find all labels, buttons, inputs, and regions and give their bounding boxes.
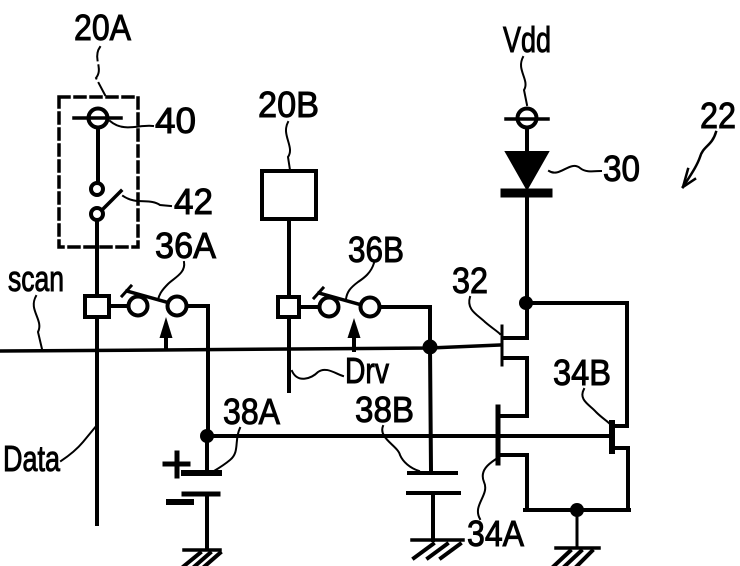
node dot top: [519, 296, 533, 310]
leader 38B: [382, 426, 419, 471]
capacitor 38B top plate: [409, 471, 456, 475]
wire switch 36A to vertical: [187, 306, 208, 436]
leader 30: [549, 166, 601, 173]
scan line: [0, 345, 501, 351]
leader 42: [123, 196, 171, 206]
wire 42 to square 36A: [95, 220, 99, 296]
plus sign: [165, 453, 188, 476]
square 36B: [278, 297, 299, 317]
minus sign: [169, 499, 191, 505]
switch 36B blade: [319, 293, 358, 304]
contact circle lower 42: [91, 208, 103, 220]
diode 30 triangle: [506, 152, 548, 189]
leader Data: [61, 425, 97, 461]
transistor 32 drain lead: [504, 336, 527, 340]
transistor 32 bar: [501, 326, 504, 365]
arrow at 36B: [352, 334, 356, 350]
svg-text:36A: 36A: [155, 225, 216, 266]
wire cap 38A to ground: [205, 497, 209, 549]
wire switch 36B to node: [380, 307, 430, 347]
switch blade 42: [102, 191, 121, 210]
gate bus wire: [207, 434, 609, 438]
svg-text:Vdd: Vdd: [503, 19, 551, 60]
wire square to switch 36A: [109, 304, 128, 308]
square 36A: [85, 296, 109, 317]
terminal 40 crossbar: [74, 116, 121, 120]
svg-text:34B: 34B: [553, 352, 611, 393]
transistor 34B bar: [609, 423, 615, 451]
ground right: [554, 548, 599, 566]
leader 38A: [214, 428, 240, 471]
svg-text:32: 32: [452, 260, 488, 301]
wire node to cap 38A: [205, 436, 209, 471]
leader 20B: [286, 122, 290, 170]
capacitor 38B bottom plate: [408, 491, 459, 495]
leader 36B: [346, 263, 374, 299]
switch 36B circle left: [320, 298, 339, 317]
svg-text:Data: Data: [3, 438, 61, 479]
transistor 34B source lead: [614, 448, 628, 510]
wire cap 38B to ground: [431, 495, 435, 540]
ground 38A: [184, 550, 220, 566]
transistor 34A bar: [496, 407, 501, 463]
bottom wire: [525, 508, 629, 512]
svg-text:40: 40: [155, 100, 196, 141]
capacitor 38A bottom plate: [184, 492, 218, 497]
box 20B: [262, 171, 316, 219]
switch 36B blade tick: [314, 288, 323, 298]
leader Vdd: [521, 57, 527, 105]
data line: [95, 317, 99, 524]
svg-text:20B: 20B: [258, 84, 319, 125]
wire square to switch 36B: [299, 305, 319, 309]
switch 36B circle right: [361, 298, 380, 317]
svg-text:42: 42: [174, 181, 213, 222]
wire diode to node: [525, 197, 529, 338]
ground 38B: [412, 540, 463, 558]
leader 20A: [96, 47, 105, 95]
switch 36A circle right: [168, 297, 187, 316]
terminal 40 circle: [89, 109, 108, 128]
wire node to 34B drain: [533, 303, 627, 426]
switch 36A blade: [127, 291, 166, 302]
leader 40: [110, 121, 153, 127]
terminal Vdd crossbar: [506, 117, 548, 121]
svg-text:34A: 34A: [467, 513, 524, 554]
dashed box 20A: [59, 97, 138, 247]
transistor 34A drain lead: [499, 414, 527, 418]
arrow 22: [683, 132, 716, 187]
terminal Vdd circle: [518, 109, 537, 128]
wire 20B down: [287, 219, 291, 391]
transistor 32 source lead: [504, 358, 527, 416]
node dot drive: [423, 340, 438, 355]
wire node to cap 38B: [430, 347, 431, 471]
leader 36A: [158, 262, 184, 300]
wire node to ground right: [576, 517, 579, 548]
wire terminal to contact: [96, 128, 100, 183]
node dot bottom: [570, 503, 584, 517]
transistor 34A source lead: [499, 455, 527, 510]
switch 36A blade tick: [122, 286, 131, 296]
svg-text:Drv: Drv: [345, 350, 389, 391]
arrow at 36A: [164, 334, 168, 349]
node dot 38A: [200, 429, 214, 443]
leader Drv: [292, 370, 343, 379]
capacitor 38A top plate: [184, 470, 219, 476]
diode 30 cathode bar: [505, 189, 548, 198]
svg-text:38A: 38A: [223, 391, 280, 432]
svg-text:22: 22: [700, 95, 736, 136]
svg-text:30: 30: [603, 148, 640, 189]
svg-text:36B: 36B: [348, 229, 404, 270]
leader 34B: [582, 389, 610, 424]
switch 36A circle left: [129, 297, 148, 316]
leader 34A: [478, 459, 496, 519]
svg-text:38B: 38B: [355, 389, 414, 430]
leader 32: [469, 297, 500, 334]
leader scan: [34, 296, 42, 349]
svg-text:scan: scan: [8, 258, 64, 299]
wire Vdd to diode: [525, 128, 529, 153]
svg-text:20A: 20A: [74, 7, 131, 48]
contact circle upper 42: [91, 183, 103, 195]
